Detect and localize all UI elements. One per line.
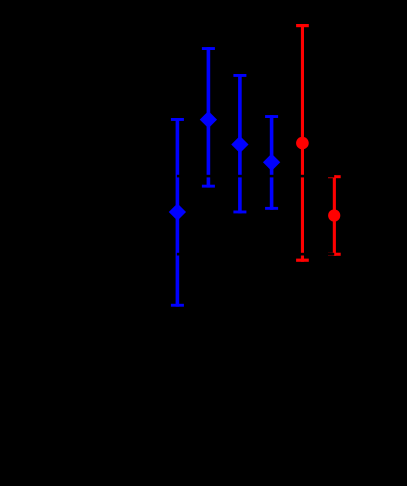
blue errorbar 1: vertical line: [176, 118, 180, 307]
red circle marker 2: [328, 209, 340, 221]
blue errorbar 2: bottom cap: [202, 185, 215, 188]
red errorbar 2: vertical line: [333, 175, 336, 256]
blue errorbar 3: bottom cap: [233, 211, 246, 214]
red errorbar 1: bottom cap: [296, 259, 309, 262]
red errorbar 1: vertical line: [301, 24, 304, 262]
blue diamond marker 1: [169, 203, 186, 220]
blue errorbar 3: vertical line: [238, 74, 242, 213]
blue diamond marker 4: [263, 154, 280, 171]
blue errorbar 3: top cap: [233, 74, 246, 77]
blue errorbar 4: bottom cap: [265, 207, 278, 210]
hidden black horizontal line A (crosses the bars near y=176): [177, 175, 334, 178]
red errorbar 2: top cap: [328, 175, 341, 178]
blue errorbar 4: vertical line: [270, 115, 274, 210]
blue errorbar 1: bottom cap: [171, 304, 184, 307]
hidden black horizontal line B (crosses the bars near y=254): [177, 253, 334, 256]
blue diamond marker 2: [200, 111, 217, 128]
red errorbar 2: bottom cap: [328, 253, 341, 256]
red errorbar 1: top cap: [296, 24, 309, 27]
blue errorbar 4: top cap: [265, 115, 278, 118]
red circle marker 1: [296, 137, 309, 150]
blue errorbar 1: top cap: [171, 118, 184, 121]
blue errorbar 2: vertical line: [207, 47, 211, 188]
blue diamond marker 3: [231, 136, 248, 153]
blue errorbar 2: top cap: [202, 47, 215, 50]
